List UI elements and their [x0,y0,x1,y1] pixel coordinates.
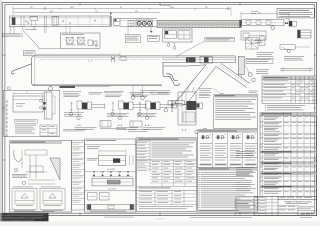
svg-text:128 293 44: 128 293 44 [300,212,314,216]
svg-text:A - A: A - A [118,124,123,127]
svg-text:125: 125 [30,7,33,9]
svg-text:A - 1802: A - 1802 [107,168,114,171]
svg-text:1 2 3 4 5 6: 1 2 3 4 5 6 [156,218,165,220]
svg-text:640: 640 [50,11,53,13]
svg-text:2812: 2812 [70,7,74,9]
svg-text:850: 850 [135,11,138,13]
svg-text:DEMAG FÖRDERTECHNIK: DEMAG FÖRDERTECHNIK [284,200,312,203]
svg-text:80: 80 [120,7,122,9]
svg-text:A - A: A - A [182,129,187,132]
svg-text:1600: 1600 [170,7,174,9]
svg-text:A - A: A - A [76,124,81,127]
svg-text:A - 1801: A - 1801 [108,188,115,191]
svg-text:420: 420 [258,12,261,14]
svg-text:310: 310 [95,11,98,13]
svg-text:410: 410 [205,7,208,9]
svg-text:A - A: A - A [145,124,150,127]
